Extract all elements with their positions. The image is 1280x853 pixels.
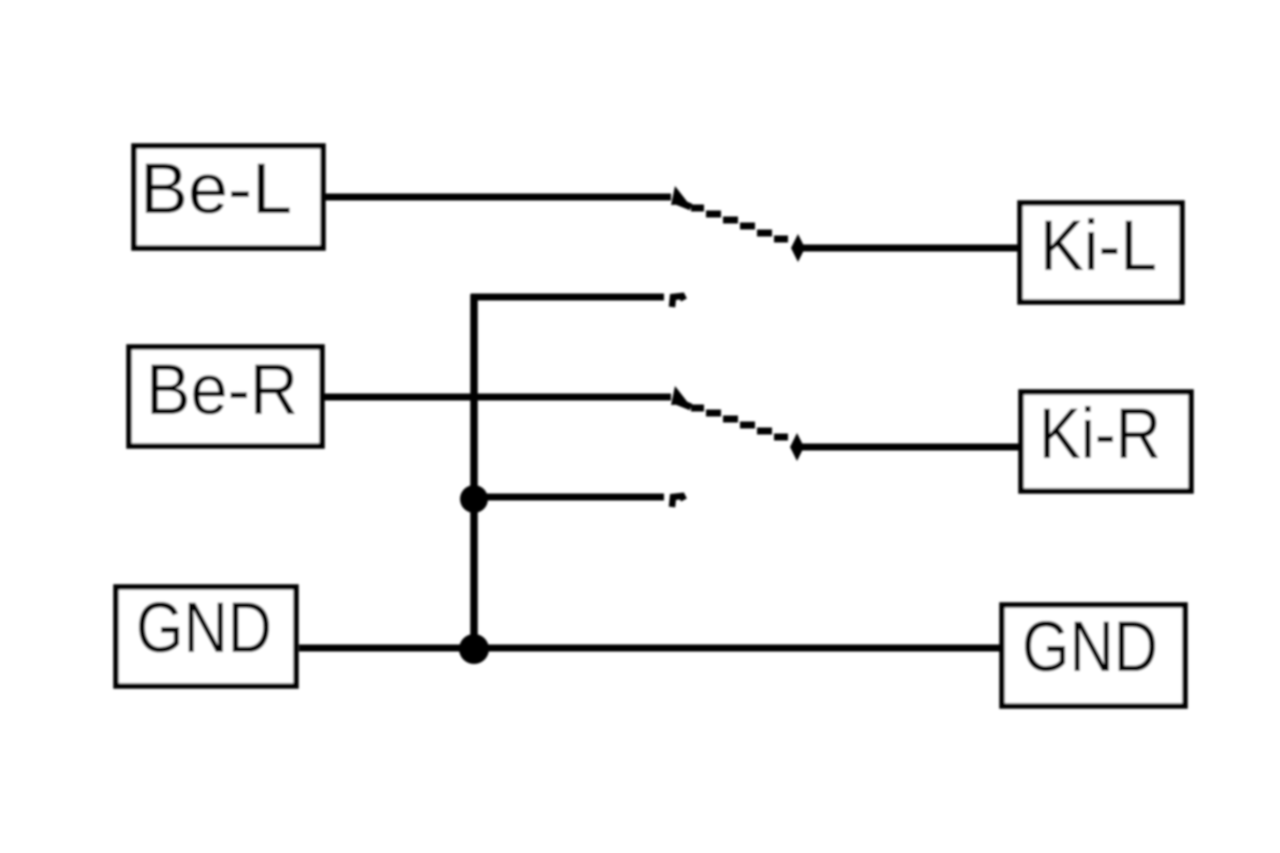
switch S2 pivot arrow	[671, 386, 689, 405]
svg-text:Ki-R: Ki-R	[1039, 395, 1161, 474]
svg-text:GND: GND	[1022, 608, 1158, 687]
switch S1 contact diamond	[791, 234, 805, 262]
junction dot middle	[460, 485, 488, 513]
switch S2 contact diamond	[790, 433, 804, 461]
box Be-L	[134, 146, 323, 248]
box GND right	[1002, 605, 1185, 706]
wire GND left to GND right	[299, 645, 1002, 652]
open contact tick upper	[672, 296, 684, 307]
wire dot to open contact	[474, 494, 664, 501]
junction dot bottom	[459, 634, 489, 664]
switch S1 pivot arrow	[671, 186, 689, 205]
box Be-R	[129, 347, 322, 446]
wire switch S1 to Ki-L	[800, 245, 1020, 252]
svg-text:Ki-L: Ki-L	[1040, 207, 1157, 286]
svg-text:Be-L: Be-L	[140, 150, 292, 229]
box GND left	[116, 587, 296, 686]
wire Be-R to switch S2	[324, 394, 671, 401]
wire bus top horizontal	[471, 294, 664, 301]
switch S2 blade	[676, 401, 788, 437]
svg-text:Be-R: Be-R	[146, 351, 298, 430]
wire Be-L to switch S1	[325, 194, 671, 201]
wire bus vertical	[470, 294, 478, 650]
svg-text:GND: GND	[136, 589, 272, 668]
open contact tick lower	[672, 496, 684, 507]
wire switch S2 to Ki-R	[799, 444, 1021, 451]
box Ki-R	[1021, 392, 1191, 491]
switch S1 blade	[676, 201, 788, 239]
box Ki-L	[1020, 203, 1182, 302]
